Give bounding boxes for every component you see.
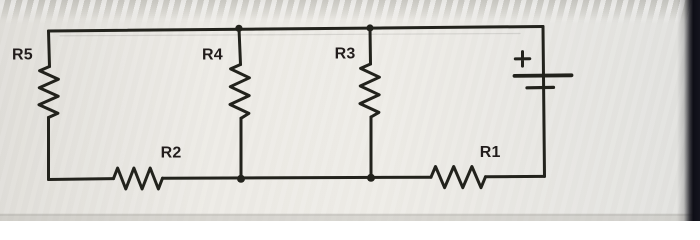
node top R4 junction (235, 25, 242, 32)
resistor R2 (114, 168, 163, 189)
wire R3 bottom lead (370, 117, 373, 178)
node top R3 junction (366, 24, 373, 31)
svg-text:R3: R3 (335, 45, 356, 62)
node bottom R4 junction (237, 175, 245, 183)
resistor R1 (431, 167, 486, 188)
wire bottom left segment (49, 177, 114, 181)
ghost reflection line under top wire (60, 34, 520, 36)
wire R4 bottom lead (240, 118, 243, 179)
svg-text:R5: R5 (12, 47, 33, 64)
wire R5 bottom lead (47, 118, 50, 180)
battery plus sign (515, 52, 530, 67)
wire R3 top lead (369, 28, 373, 64)
wire left column top (R5 top lead) (49, 31, 50, 67)
battery V1 plate long (+) (515, 73, 572, 77)
wire bottom middle segment (163, 177, 432, 178)
node bottom R3 junction (367, 174, 375, 182)
wire battery column (543, 27, 545, 177)
svg-text:R4: R4 (202, 47, 223, 64)
wire top horizontal (49, 27, 544, 32)
resistor R4 (230, 65, 249, 119)
battery V1 plate short (-) (527, 86, 554, 90)
resistor R3 (360, 64, 379, 117)
svg-text:R1: R1 (480, 144, 501, 161)
svg-text:R2: R2 (161, 145, 182, 162)
wire bottom right segment (486, 175, 545, 178)
resistor R5 (39, 67, 58, 118)
wire R4 top lead (239, 29, 241, 65)
